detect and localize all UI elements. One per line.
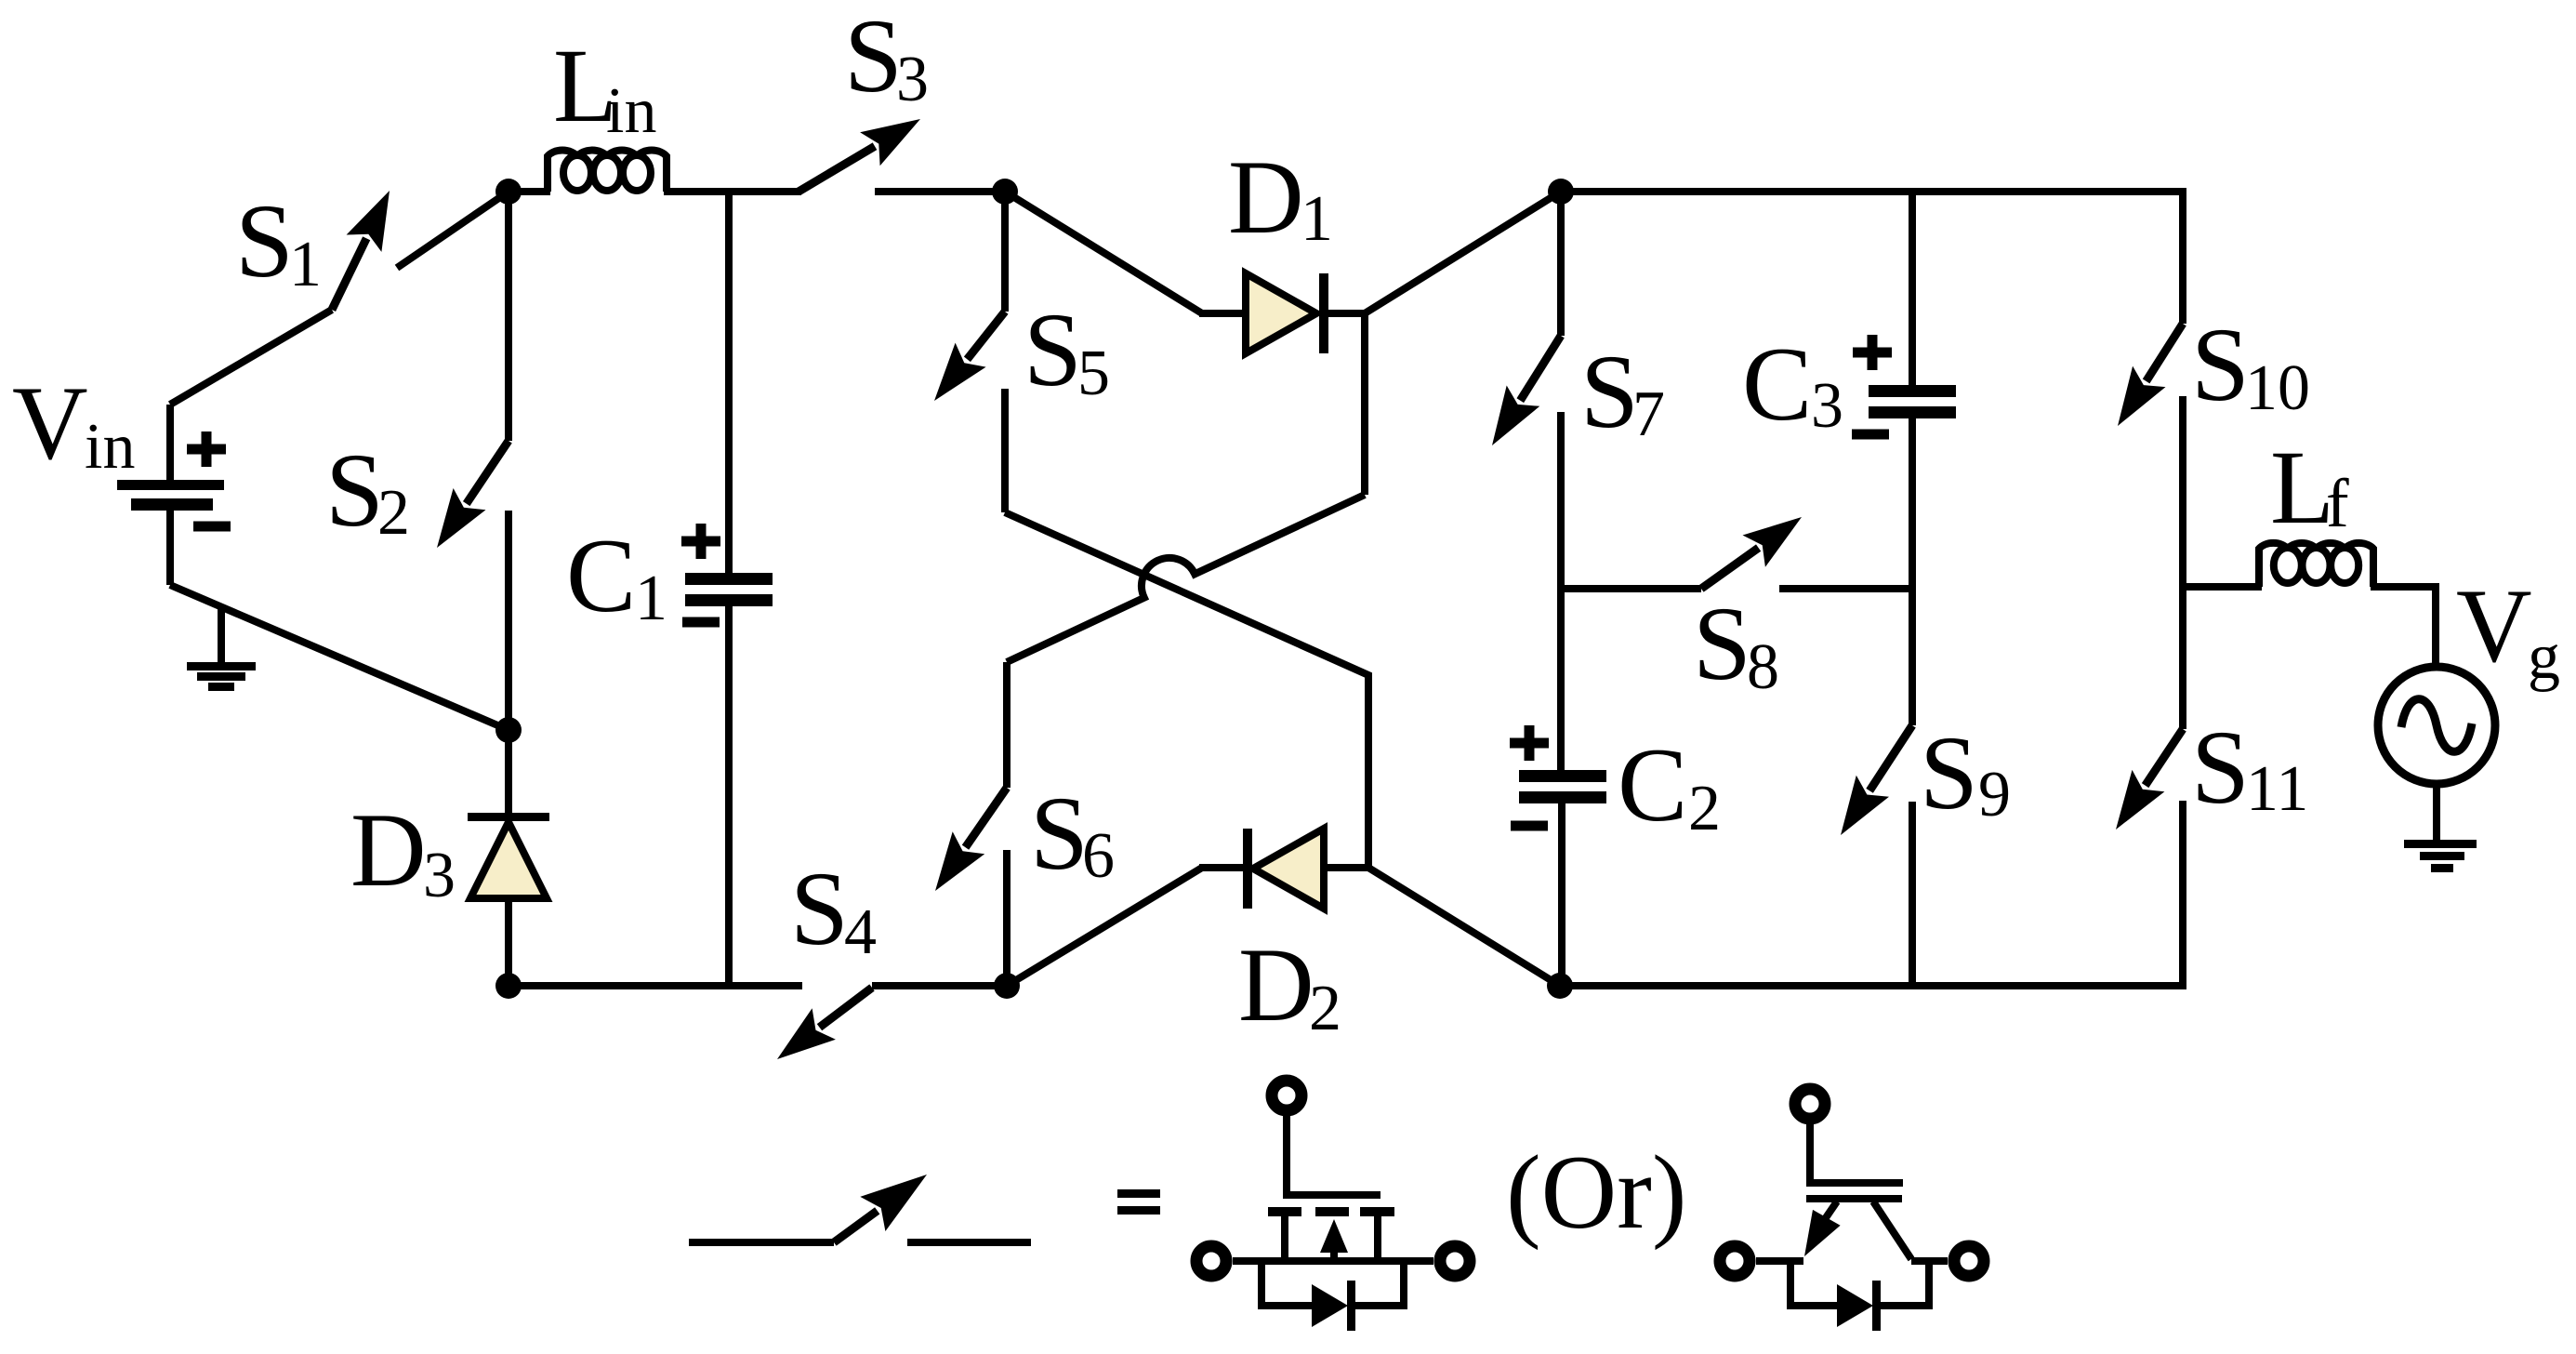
svg-text:C: C bbox=[1742, 326, 1812, 443]
legend (Or) text bbox=[1506, 1135, 1687, 1251]
switch S6 bbox=[935, 662, 1007, 986]
svg-text:L: L bbox=[2270, 430, 2334, 546]
switch S10 bbox=[2118, 324, 2183, 587]
bottom rail (S4 to node G) bbox=[872, 982, 1007, 989]
switch S3 bbox=[799, 119, 1005, 192]
svg-text:6: 6 bbox=[1082, 820, 1115, 892]
voltage source Vg (AC) bbox=[2378, 667, 2495, 842]
svg-text:S: S bbox=[844, 0, 903, 114]
svg-text:2: 2 bbox=[377, 477, 410, 549]
label S11 bbox=[2191, 710, 2308, 826]
label S2 bbox=[325, 432, 410, 549]
node D (S3/S5/D1 junction) bbox=[992, 179, 1018, 205]
wire D1 to S6 (crossover diagonal B with hop) bbox=[1007, 313, 1365, 662]
svg-text:S: S bbox=[1920, 715, 1978, 831]
svg-text:C: C bbox=[1618, 727, 1687, 843]
legend switch symbol bbox=[689, 1175, 1031, 1242]
label S4 bbox=[790, 851, 877, 968]
label S10 bbox=[2191, 307, 2310, 424]
svg-text:5: 5 bbox=[1077, 338, 1110, 409]
label C3 bbox=[1742, 326, 1843, 443]
svg-text:1: 1 bbox=[289, 229, 322, 300]
node G (S4/S6/D2 junction) bbox=[994, 973, 1020, 999]
svg-text:S: S bbox=[1024, 292, 1082, 408]
svg-text:S: S bbox=[235, 183, 294, 299]
switch S8 bbox=[1562, 517, 1912, 589]
capacitor C1 bbox=[685, 192, 773, 986]
svg-text:4: 4 bbox=[844, 896, 877, 968]
legend equals sign bbox=[1117, 1189, 1160, 1215]
svg-text:in: in bbox=[85, 411, 135, 483]
label S3 bbox=[844, 0, 929, 115]
label D3 bbox=[350, 792, 456, 911]
svg-text:3: 3 bbox=[896, 44, 929, 115]
C3 + polarity bbox=[1853, 335, 1892, 370]
inductor Lin bbox=[548, 151, 667, 192]
node B (S2/D3/Vin junction) bbox=[495, 717, 522, 743]
svg-text:D: D bbox=[350, 792, 427, 909]
svg-text:f: f bbox=[2326, 466, 2349, 542]
label S7 bbox=[1580, 334, 1665, 450]
top rail (node F to S10) bbox=[1561, 192, 2183, 324]
svg-text:3: 3 bbox=[423, 840, 456, 911]
svg-text:S: S bbox=[2191, 307, 2250, 423]
node C (D3/bottom rail junction) bbox=[495, 973, 522, 999]
wire node A to Lin bbox=[509, 188, 550, 195]
svg-text:1: 1 bbox=[1301, 183, 1333, 255]
wire Lin to S3 bbox=[664, 188, 801, 195]
label S8 bbox=[1693, 586, 1779, 703]
svg-text:7: 7 bbox=[1632, 378, 1665, 450]
svg-text:S: S bbox=[325, 432, 384, 549]
svg-text:g: g bbox=[2528, 621, 2560, 693]
svg-text:D: D bbox=[1228, 139, 1304, 256]
svg-text:S: S bbox=[790, 851, 849, 967]
svg-text:S: S bbox=[1693, 586, 1751, 702]
svg-text:V: V bbox=[2456, 568, 2532, 684]
node A (Vin/S1/Lin/S2 junction) bbox=[495, 179, 522, 205]
wire S5 to D2 side (crossover diagonal A) bbox=[1005, 512, 1368, 868]
C2 - polarity bbox=[1511, 821, 1548, 831]
battery + polarity bbox=[187, 431, 226, 467]
diode D2 bbox=[1007, 829, 1560, 986]
switch S9 bbox=[1841, 589, 1912, 986]
voltage source Vin (battery) bbox=[117, 405, 224, 585]
switch S7 bbox=[1492, 192, 1561, 772]
switch S4 bbox=[777, 988, 872, 1059]
svg-text:11: 11 bbox=[2246, 753, 2308, 825]
svg-text:2: 2 bbox=[1688, 773, 1721, 844]
node E (D2/C2/bottom rail junction) bbox=[1547, 973, 1573, 999]
label S5 bbox=[1024, 292, 1110, 409]
wire Lf to Vg bbox=[2371, 587, 2436, 667]
label C2 bbox=[1618, 727, 1721, 844]
legend MOSFET symbol bbox=[1196, 1081, 1470, 1331]
label Lin bbox=[553, 28, 656, 147]
battery - polarity bbox=[193, 522, 231, 532]
label Vg bbox=[2456, 568, 2560, 693]
svg-text:C: C bbox=[566, 518, 636, 634]
label D2 bbox=[1238, 927, 1341, 1044]
switch S1 bbox=[170, 191, 509, 405]
label C1 bbox=[566, 518, 667, 634]
label D1 bbox=[1228, 139, 1333, 256]
svg-text:2: 2 bbox=[1309, 973, 1341, 1044]
svg-text:S: S bbox=[1580, 334, 1639, 450]
legend IGBT symbol bbox=[1720, 1089, 1984, 1331]
svg-text:in: in bbox=[606, 75, 656, 147]
svg-text:S: S bbox=[2191, 710, 2250, 826]
label Vin bbox=[12, 365, 135, 483]
svg-text:D: D bbox=[1238, 927, 1314, 1043]
C1 - polarity bbox=[682, 617, 720, 628]
switch S2 bbox=[437, 192, 509, 730]
svg-text:10: 10 bbox=[2245, 352, 2310, 424]
bottom rail (node E to S11) bbox=[1560, 982, 2183, 989]
inductor Lf bbox=[2259, 543, 2373, 587]
label S1 bbox=[235, 183, 322, 300]
switch S5 bbox=[934, 192, 1005, 512]
C3 - polarity bbox=[1852, 430, 1889, 440]
svg-text:(Or): (Or) bbox=[1506, 1135, 1687, 1251]
svg-text:1: 1 bbox=[635, 563, 667, 634]
node F (D1/S7/top rail junction) bbox=[1548, 179, 1574, 205]
C2 + polarity bbox=[1510, 725, 1549, 761]
label Lf bbox=[2270, 430, 2349, 546]
ground (input side) bbox=[187, 605, 256, 691]
svg-text:9: 9 bbox=[1978, 759, 2011, 830]
label S6 bbox=[1030, 776, 1115, 892]
svg-text:V: V bbox=[12, 365, 88, 482]
switch S11 bbox=[2116, 587, 2183, 989]
capacitor C2 bbox=[1519, 770, 1606, 986]
ground (output side) bbox=[2404, 840, 2477, 872]
bottom rail (left of S4) bbox=[509, 982, 802, 989]
wire Vin negative to node B (diagonal) bbox=[170, 585, 509, 730]
svg-text:8: 8 bbox=[1747, 631, 1779, 703]
diode D1 bbox=[1005, 192, 1561, 353]
C1 + polarity bbox=[681, 524, 720, 559]
svg-text:3: 3 bbox=[1811, 370, 1843, 442]
svg-text:S: S bbox=[1030, 776, 1089, 892]
wire S10/S11 to Lf bbox=[2183, 583, 2262, 591]
capacitor C3 bbox=[1869, 192, 1956, 589]
label S9 bbox=[1920, 715, 2011, 831]
diode D3 bbox=[468, 730, 549, 986]
